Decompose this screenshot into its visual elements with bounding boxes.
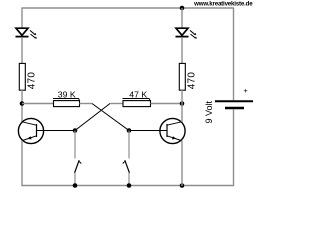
LED D1 xyxy=(16,28,37,39)
node bottom middle xyxy=(127,183,132,188)
svg-text:+: + xyxy=(243,86,248,95)
switch S1 xyxy=(75,131,82,186)
wire xyxy=(21,37,23,64)
node top rail junction xyxy=(180,6,185,11)
wire xyxy=(21,90,23,122)
wire right branch upper xyxy=(181,8,183,29)
node right collector junction xyxy=(180,101,185,106)
transistor Q1 xyxy=(18,118,44,143)
switch S2 xyxy=(123,131,130,186)
wire left rail upper xyxy=(21,8,23,29)
wire base lead Q1 xyxy=(44,130,75,132)
wire stub cross to 47K xyxy=(110,103,123,105)
wire bottom rail xyxy=(21,185,234,187)
svg-text:470: 470 xyxy=(27,72,38,90)
node left collector junction xyxy=(20,101,25,106)
battery BT1 9V xyxy=(204,86,253,123)
LED D2 xyxy=(176,28,197,39)
wire feeder to 39K xyxy=(22,103,54,105)
wire cross B (47K to left base) xyxy=(75,104,110,131)
node bottom left xyxy=(73,183,78,188)
wire battery rail lower xyxy=(233,109,235,186)
svg-text:www.kreativekiste.de: www.kreativekiste.de xyxy=(193,1,253,8)
svg-text:470: 470 xyxy=(187,72,198,90)
wire base lead Q2 xyxy=(129,130,160,132)
wire left rail lower xyxy=(21,141,23,186)
transistor Q2 xyxy=(160,118,186,143)
wire stub 39K to cross xyxy=(80,103,93,105)
svg-text:9 Volt: 9 Volt xyxy=(204,100,214,123)
wire 47K to right rail xyxy=(151,103,183,105)
wire xyxy=(181,37,183,64)
node right base junction xyxy=(127,128,132,133)
resistor R2 39K xyxy=(53,90,80,107)
wire top rail xyxy=(21,7,234,9)
resistor R3 47K xyxy=(123,90,151,107)
wire cross A (39K to right base) xyxy=(92,104,129,131)
resistor R1 470 xyxy=(19,63,37,90)
resistor R4 470 xyxy=(179,63,197,90)
node left base junction xyxy=(73,128,78,133)
node bottom right xyxy=(180,183,185,188)
wire xyxy=(181,90,183,122)
wire right rail lower xyxy=(181,141,183,186)
wire battery rail upper xyxy=(233,8,235,100)
